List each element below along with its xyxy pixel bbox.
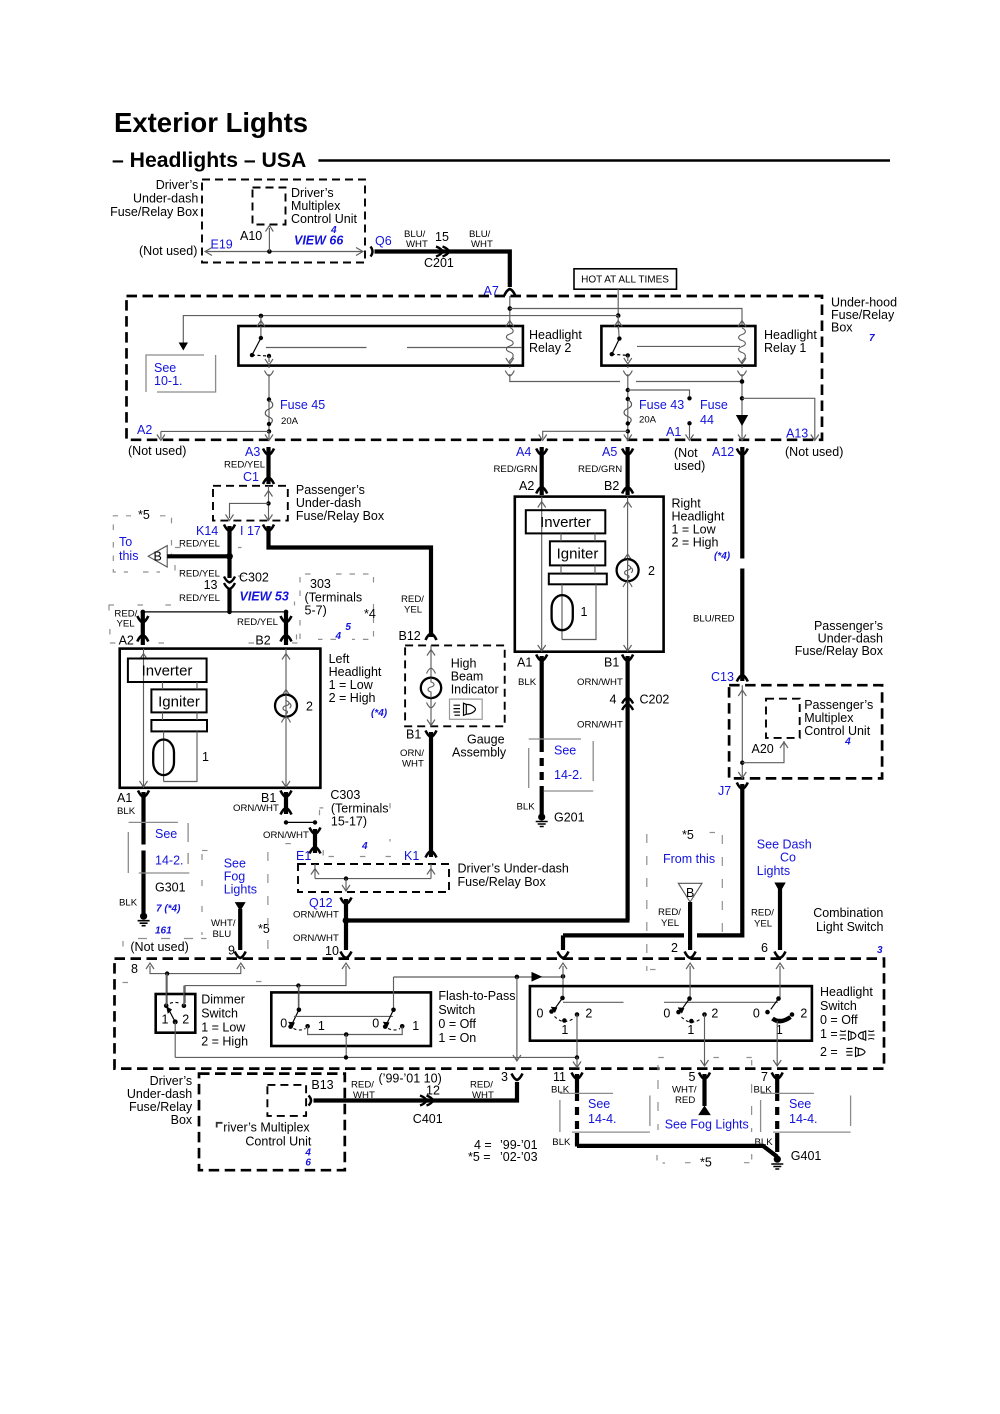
svg-text:A5: A5 [602, 445, 617, 459]
svg-text:2: 2 [648, 564, 655, 578]
svg-text:ORN/WHT: ORN/WHT [577, 720, 623, 731]
svg-text:E1: E1 [296, 849, 311, 863]
svg-text:RED/YEL: RED/YEL [237, 617, 279, 628]
svg-text:15: 15 [435, 230, 449, 244]
svg-text:A4: A4 [516, 445, 531, 459]
svg-text:See Dash: See Dash [757, 838, 812, 852]
svg-text:K1: K1 [404, 849, 419, 863]
svg-text:Driver’s: Driver’s [150, 1074, 193, 1088]
svg-text:1: 1 [318, 1019, 325, 1033]
svg-text:Lights: Lights [757, 864, 790, 878]
svg-text:Combination: Combination [813, 906, 883, 920]
svg-text:Co: Co [780, 851, 796, 865]
svg-text:14-4.: 14-4. [789, 1112, 818, 1126]
svg-text:3: 3 [877, 945, 883, 956]
svg-text:2: 2 [800, 1007, 807, 1021]
svg-text:1 = Low: 1 = Low [672, 523, 717, 537]
svg-text:Light Switch: Light Switch [816, 920, 883, 934]
svg-text:11: 11 [553, 1070, 566, 1084]
svg-text:4: 4 [361, 841, 368, 852]
svg-text:4: 4 [610, 693, 617, 707]
svg-text:20A: 20A [639, 415, 657, 426]
svg-text:YEL: YEL [404, 605, 423, 616]
svg-text:1: 1 [687, 1023, 694, 1037]
svg-text:To: To [119, 535, 132, 549]
svg-text:Fuse/Relay Box: Fuse/Relay Box [795, 644, 884, 658]
svg-text:’02-’03: ’02-’03 [500, 1150, 538, 1164]
svg-text:I 17: I 17 [240, 524, 261, 538]
svg-text:G401: G401 [791, 1149, 822, 1163]
svg-text:Fuse/Relay Box: Fuse/Relay Box [110, 205, 199, 219]
svg-text:A1: A1 [117, 791, 132, 805]
svg-text:2: 2 [182, 1013, 189, 1027]
svg-text:B1: B1 [406, 728, 421, 742]
svg-text:RED/GRN: RED/GRN [494, 464, 538, 475]
svg-text:See: See [554, 744, 576, 758]
svg-text:*5 =: *5 = [468, 1150, 491, 1164]
svg-text:B12: B12 [399, 629, 421, 643]
svg-text:B2: B2 [255, 634, 270, 648]
svg-text:14-4.: 14-4. [588, 1112, 617, 1126]
svg-text:44: 44 [700, 413, 714, 427]
svg-text:A1: A1 [666, 425, 681, 439]
svg-text:ORN/: ORN/ [400, 748, 424, 759]
svg-text:13: 13 [204, 578, 218, 592]
svg-text:E19: E19 [211, 238, 233, 252]
svg-text:0: 0 [753, 1007, 760, 1021]
svg-text:BLK: BLK [119, 897, 138, 908]
svg-text:Box: Box [831, 321, 853, 335]
svg-text:High: High [451, 657, 477, 671]
svg-text:7: 7 [761, 1070, 768, 1084]
svg-text:15-17): 15-17) [331, 815, 367, 829]
svg-text:7: 7 [869, 333, 875, 344]
svg-text:C401: C401 [413, 1112, 443, 1126]
svg-text:Fuse/Relay Box: Fuse/Relay Box [458, 875, 547, 889]
svg-text:BLU: BLU [213, 929, 232, 940]
svg-text:WHT: WHT [471, 239, 493, 250]
svg-text:2 = High: 2 = High [201, 1035, 248, 1049]
svg-text:2: 2 [711, 1007, 718, 1021]
svg-text:C303: C303 [330, 788, 360, 802]
svg-text:Under-dash: Under-dash [133, 191, 198, 205]
svg-text:ORN/WHT: ORN/WHT [293, 933, 339, 944]
svg-text:1: 1 [202, 750, 209, 764]
svg-text:20A: 20A [281, 416, 299, 427]
svg-text:river’s Multiplex: river’s Multiplex [223, 1121, 310, 1135]
svg-text:Igniter: Igniter [557, 546, 599, 563]
svg-text:BLK: BLK [117, 806, 136, 817]
svg-text:From this: From this [663, 852, 715, 866]
svg-text:Passenger’s: Passenger’s [804, 698, 873, 712]
svg-text:7 (*4): 7 (*4) [156, 904, 181, 915]
svg-text:2: 2 [671, 941, 678, 955]
svg-text:1: 1 [412, 1019, 419, 1033]
svg-text:(*4): (*4) [371, 708, 388, 719]
svg-text:used): used) [674, 459, 705, 473]
svg-text:RED/YEL: RED/YEL [179, 593, 221, 604]
svg-text:5: 5 [345, 622, 351, 633]
svg-text:A2: A2 [137, 423, 152, 437]
svg-text:See: See [224, 857, 246, 871]
svg-text:WHT: WHT [406, 239, 428, 250]
svg-text:See: See [155, 827, 177, 841]
svg-text:Headlight: Headlight [529, 328, 582, 342]
svg-text:(Terminals: (Terminals [305, 591, 363, 605]
svg-text:ORN/WHT: ORN/WHT [263, 830, 309, 841]
svg-text:ORN/WHT: ORN/WHT [577, 677, 623, 688]
svg-text:A2: A2 [119, 634, 134, 648]
svg-text:0 = Off: 0 = Off [820, 1013, 858, 1027]
svg-text:A12: A12 [712, 445, 734, 459]
svg-text:Driver’s: Driver’s [156, 178, 199, 192]
svg-text:YEL: YEL [754, 919, 773, 930]
svg-text:Relay 2: Relay 2 [529, 341, 571, 355]
svg-text:(Not used): (Not used) [785, 445, 843, 459]
svg-text:Beam: Beam [451, 670, 484, 684]
svg-text:Inverter: Inverter [142, 663, 193, 680]
svg-text:C302: C302 [239, 571, 269, 585]
svg-text:WHT: WHT [472, 1090, 494, 1101]
svg-text:0: 0 [537, 1007, 544, 1021]
svg-text:2 = High: 2 = High [329, 691, 376, 705]
svg-text:Gauge: Gauge [467, 733, 505, 747]
svg-text:1 =: 1 = [820, 1027, 838, 1041]
svg-text:ORN/WHT: ORN/WHT [233, 803, 279, 814]
svg-text:4: 4 [844, 736, 851, 747]
svg-text:A10: A10 [240, 229, 262, 243]
svg-text:A13: A13 [786, 427, 808, 441]
svg-text:See: See [154, 361, 176, 375]
svg-text:*4: *4 [364, 607, 376, 621]
svg-text:9: 9 [228, 944, 235, 958]
svg-text:WHT/: WHT/ [672, 1085, 697, 1096]
svg-text:Indicator: Indicator [451, 683, 499, 697]
svg-text:C201: C201 [424, 256, 454, 270]
svg-text:Fuse 45: Fuse 45 [280, 398, 325, 412]
svg-text:Under-dash: Under-dash [127, 1087, 192, 1101]
svg-text:Fuse/Relay Box: Fuse/Relay Box [296, 509, 385, 523]
svg-text:G201: G201 [554, 811, 585, 825]
svg-text:Switch: Switch [820, 999, 857, 1013]
svg-text:14-2.: 14-2. [554, 768, 583, 782]
svg-text:K14: K14 [196, 524, 218, 538]
svg-text:See: See [588, 1097, 610, 1111]
svg-text:Left: Left [329, 652, 350, 666]
svg-text:BLK: BLK [755, 1137, 774, 1148]
svg-text:Multiplex: Multiplex [291, 199, 341, 213]
svg-text:2 = High: 2 = High [672, 536, 719, 550]
svg-text:Fuse: Fuse [700, 398, 728, 412]
svg-text:RED: RED [675, 1095, 695, 1106]
svg-text:*5: *5 [138, 508, 150, 522]
svg-text:J7: J7 [718, 784, 731, 798]
svg-text:(*4): (*4) [714, 551, 731, 562]
svg-text:Dimmer: Dimmer [201, 993, 245, 1007]
svg-text:G301: G301 [155, 881, 186, 895]
svg-text:RED/YEL: RED/YEL [179, 539, 221, 550]
svg-text:Box: Box [171, 1113, 193, 1127]
svg-text:1 = Low: 1 = Low [201, 1021, 246, 1035]
svg-text:C202: C202 [640, 693, 670, 707]
svg-text:Multiplex: Multiplex [804, 711, 854, 725]
svg-text:Lights: Lights [224, 883, 257, 897]
svg-text:Exterior Lights: Exterior Lights [114, 107, 308, 138]
svg-text:1 = On: 1 = On [438, 1031, 476, 1045]
svg-text:4: 4 [335, 631, 342, 642]
svg-text:C13: C13 [711, 670, 734, 684]
svg-text:10: 10 [325, 944, 339, 958]
svg-text:BLU/RED: BLU/RED [693, 614, 735, 625]
svg-text:Right: Right [672, 497, 702, 511]
svg-text:B2: B2 [604, 479, 619, 493]
svg-text:Control Unit: Control Unit [291, 212, 358, 226]
svg-text:Control Unit: Control Unit [245, 1134, 312, 1148]
svg-text:2: 2 [585, 1007, 592, 1021]
svg-text:Driver’s: Driver’s [291, 186, 334, 200]
svg-text:ORN/WHT: ORN/WHT [293, 910, 339, 921]
svg-text:RED/: RED/ [351, 1080, 374, 1091]
svg-text:Headlight: Headlight [764, 328, 817, 342]
svg-text:WHT: WHT [402, 759, 424, 770]
svg-text:(Not used): (Not used) [128, 444, 186, 458]
svg-text:Fuse 43: Fuse 43 [639, 398, 684, 412]
svg-text:5-7): 5-7) [305, 604, 327, 618]
svg-text:1: 1 [561, 1023, 568, 1037]
svg-text:A20: A20 [752, 742, 774, 756]
svg-text:6: 6 [305, 1158, 311, 1169]
svg-text:B: B [686, 886, 694, 900]
svg-text:8: 8 [131, 962, 138, 976]
svg-text:– Headlights – USA: – Headlights – USA [112, 149, 306, 172]
svg-text:RED/: RED/ [658, 907, 681, 918]
svg-text:VIEW 66: VIEW 66 [294, 234, 344, 248]
svg-text:3: 3 [501, 1070, 508, 1084]
svg-text:Relay 1: Relay 1 [764, 341, 806, 355]
svg-text:this: this [119, 549, 138, 563]
svg-text:Driver’s Under-dash: Driver’s Under-dash [458, 862, 569, 876]
svg-text:0: 0 [372, 1017, 379, 1031]
svg-text:RED/: RED/ [470, 1080, 493, 1091]
svg-text:303: 303 [310, 577, 331, 591]
svg-text:B1: B1 [604, 656, 619, 670]
svg-text:RED/: RED/ [751, 908, 774, 919]
svg-text:*5: *5 [700, 1156, 712, 1170]
svg-text:Switch: Switch [201, 1007, 238, 1021]
svg-text:C1: C1 [243, 470, 259, 484]
svg-text:Fuse/Relay: Fuse/Relay [129, 1100, 193, 1114]
svg-text:See Fog Lights: See Fog Lights [665, 1118, 749, 1132]
svg-text:Inverter: Inverter [540, 514, 591, 531]
svg-text:Headlight: Headlight [820, 985, 873, 999]
svg-text:A1: A1 [517, 656, 532, 670]
svg-text:14-2.: 14-2. [155, 854, 184, 868]
svg-text:0: 0 [280, 1017, 287, 1031]
svg-text:Switch: Switch [438, 1003, 475, 1017]
svg-text:WHT: WHT [353, 1090, 375, 1101]
svg-text:Headlight: Headlight [329, 665, 382, 679]
svg-text:BLK: BLK [518, 677, 537, 688]
svg-text:VIEW 53: VIEW 53 [240, 590, 289, 604]
svg-text:1: 1 [581, 605, 588, 619]
svg-text:2: 2 [306, 700, 313, 714]
svg-text:YEL: YEL [661, 918, 680, 929]
svg-text:RED/GRN: RED/GRN [578, 464, 622, 475]
svg-text:A2: A2 [519, 479, 534, 493]
svg-text:B: B [154, 550, 162, 564]
svg-text:(Terminals: (Terminals [331, 802, 389, 816]
svg-text:WHT/: WHT/ [211, 918, 236, 929]
svg-text:Igniter: Igniter [158, 694, 200, 711]
svg-text:BLK: BLK [517, 802, 536, 813]
svg-text:Flash-to-Pass: Flash-to-Pass [438, 989, 515, 1003]
svg-text:2 =: 2 = [820, 1045, 838, 1059]
svg-text:Fog: Fog [224, 870, 246, 884]
svg-text:0: 0 [663, 1007, 670, 1021]
svg-text:0 = Off: 0 = Off [438, 1017, 476, 1031]
svg-text:Passenger’s: Passenger’s [296, 483, 365, 497]
svg-text:Assembly: Assembly [452, 746, 507, 760]
svg-text:5: 5 [689, 1070, 696, 1084]
svg-text:YEL: YEL [117, 619, 136, 630]
svg-text:(Not used): (Not used) [130, 940, 188, 954]
svg-text:Control Unit: Control Unit [804, 724, 871, 738]
svg-text:(Not: (Not [674, 446, 698, 460]
svg-text:B13: B13 [311, 1078, 333, 1092]
svg-text:12: 12 [426, 1084, 440, 1098]
svg-text:(Not used): (Not used) [139, 244, 197, 258]
svg-text:10-1.: 10-1. [154, 374, 183, 388]
svg-text:1 = Low: 1 = Low [329, 678, 374, 692]
svg-text:See: See [789, 1097, 811, 1111]
svg-text:6: 6 [761, 941, 768, 955]
svg-text:Headlight: Headlight [672, 510, 725, 524]
svg-text:RED/YEL: RED/YEL [224, 460, 266, 471]
svg-text:BLK: BLK [552, 1137, 571, 1148]
svg-text:161: 161 [155, 926, 172, 937]
svg-text:RED/: RED/ [401, 594, 424, 605]
svg-text:*5: *5 [682, 828, 694, 842]
svg-text:1: 1 [162, 1013, 169, 1027]
svg-text:Q12: Q12 [309, 896, 333, 910]
svg-text:HOT AT ALL TIMES: HOT AT ALL TIMES [581, 275, 669, 286]
svg-text:A3: A3 [245, 445, 260, 459]
svg-text:Q6: Q6 [375, 234, 392, 248]
